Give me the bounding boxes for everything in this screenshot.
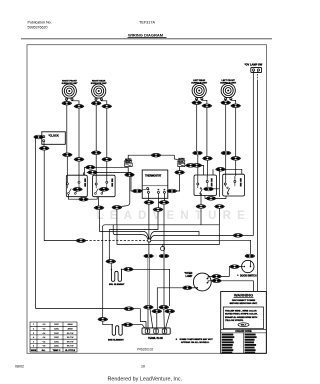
wire junction right to lamp switch: [151, 235, 234, 239]
svg-text:LEFT FRONT: LEFT FRONT: [222, 80, 236, 82]
wire bake right down: [163, 258, 165, 306]
wire top link to comp2: [172, 155, 178, 159]
connector bus y167: [85, 166, 95, 170]
connector unit3 left: [192, 101, 202, 105]
svg-text:WIRING DIAGRAM: WIRING DIAGRAM: [128, 33, 164, 38]
wire chart cell text: [33, 323, 73, 348]
door switch terminal left: [244, 266, 246, 268]
switch1 contact blade: [69, 189, 78, 193]
svg-text:Publication No.: Publication No.: [28, 21, 52, 25]
wire comp1 bottom down: [127, 167, 129, 173]
thermostat terminals: [147, 191, 149, 193]
wire junction down: [148, 242, 150, 254]
svg-text:SOME COMPONENTS MAY NOT: SOME COMPONENTS MAY NOT: [180, 338, 214, 341]
wire loop tee to junction arm: [113, 225, 148, 239]
connector block feed right: [159, 305, 169, 309]
svg-text:TEMP C: TEMP C: [53, 350, 61, 352]
wire dashed broil feed: [86, 240, 147, 242]
switch4 terminal stems: [225, 183, 235, 187]
terminal block lug 1: [145, 329, 150, 333]
wire bake right: [122, 324, 123, 326]
switch3 blade drop: [200, 195, 202, 205]
svg-text:105C: 105C: [54, 337, 59, 339]
svg-text:105C: 105C: [54, 333, 59, 335]
connector thermostat left: [132, 189, 142, 193]
svg-text:LAMP: LAMP: [186, 275, 193, 278]
wire comp1 to loop diagonal: [122, 177, 130, 207]
connector loop tail: [98, 318, 108, 322]
switch2 vertical label: [111, 178, 113, 186]
wire thermostat t3 down: [163, 193, 165, 200]
svg-text:*OV LAMP SW: *OV LAMP SW: [245, 63, 263, 67]
wire broil return to block: [166, 313, 170, 328]
svg-text:*CLOCK: *CLOCK: [49, 134, 59, 138]
wire lamp-door link: [221, 267, 230, 277]
switch2 terminal b: [106, 181, 108, 183]
switch3 vertical label: [211, 178, 213, 186]
frame border: [27, 45, 266, 354]
wire lamp bottom to warning area: [221, 281, 253, 292]
door switch circle: [242, 260, 254, 272]
svg-text:105C: 105C: [54, 341, 59, 343]
wire unit4 left lead: [225, 99, 227, 101]
wire unit3 right jog: [202, 99, 207, 104]
wire lamp switch left down: [252, 71, 254, 236]
svg-text:10: 10: [141, 365, 145, 369]
switch3 internal connector: [203, 187, 213, 191]
connector lamp left: [182, 286, 192, 290]
connector broil return: [165, 309, 175, 313]
switch3 terminal stems: [198, 183, 207, 189]
warning inner tracer box: [223, 307, 263, 329]
wire unit2 left lead: [95, 99, 97, 101]
connector clock left: [33, 135, 43, 139]
wire switch2 drop to junction: [100, 210, 149, 239]
wire into block terminal 1: [148, 309, 153, 328]
wire unit1 right jog: [72, 99, 79, 104]
wire clock left to left bus: [35, 137, 42, 309]
bake element right terminal: [122, 324, 123, 325]
connector switch4 drop: [214, 205, 224, 209]
connector left bus: [124, 307, 134, 311]
connector bake right: [159, 254, 169, 258]
wire thermostat t2 down: [157, 193, 159, 207]
svg-text:GA.: GA.: [42, 349, 46, 352]
left bus line y167: [85, 167, 129, 175]
svg-text:4: 4: [33, 337, 35, 339]
surface unit right front label: [62, 80, 79, 85]
wire broil right terminal: [121, 269, 122, 270]
connector switch2 drop: [94, 206, 104, 210]
wire switch2 bottom drop: [98, 197, 100, 206]
wire comp2 to thermostat right: [168, 174, 180, 191]
wire clock bottom down to elbow: [44, 150, 76, 241]
wire t1 to junction: [148, 204, 150, 239]
svg-text:P#6350102: P#6350102: [137, 348, 154, 352]
wire door left stub: [239, 266, 243, 268]
terminal block body: [142, 328, 170, 334]
svg-text:WIRE: WIRE: [31, 350, 37, 352]
switch4 terminal a: [224, 183, 226, 185]
wire lamp right top: [208, 276, 212, 278]
connector unit2 right: [102, 105, 112, 109]
note text: [180, 338, 214, 344]
connector comp2 bottom: [174, 171, 184, 175]
oven lamp switch terminals: [253, 69, 255, 71]
connector unit2 left: [91, 101, 101, 105]
svg-text:TEF317A: TEF317A: [139, 21, 156, 25]
connector bake left: [143, 254, 153, 258]
svg-text:BEFORE SERVICING UNIT.: BEFORE SERVICING UNIT.: [230, 303, 258, 305]
door switch terminal right: [250, 266, 252, 268]
switch1 terminal stems: [67, 183, 79, 188]
wire chart header row: [31, 349, 76, 352]
right bus line y169: [213, 169, 242, 175]
connector thermostat right: [167, 189, 177, 193]
svg-text:~10: ~10: [42, 329, 46, 331]
wire unit4 left to switch4: [226, 155, 235, 183]
wire connector to corner up: [243, 234, 254, 236]
surface unit left rear coil: [192, 83, 206, 100]
switch box 3 (left rear inf sw): [194, 175, 217, 196]
connector unit2 right mid: [102, 158, 112, 162]
switch2 internal connector: [99, 188, 109, 192]
wire unit1 right down: [78, 108, 80, 157]
wire switch4 drop to loop: [219, 208, 221, 224]
thermal limiter comp1 label: [124, 158, 132, 163]
switch2 terminal a: [95, 183, 97, 185]
connector t1: [144, 201, 154, 205]
connector unit1 left mid: [62, 153, 72, 157]
terminal block lug 2: [154, 329, 159, 333]
switch1 terminal b: [78, 181, 80, 183]
header rule: [21, 38, 272, 40]
wire unit2 left to switch2: [95, 155, 97, 183]
switch1 vertical label: [84, 178, 86, 186]
wire into block terminal 2: [156, 313, 158, 328]
switch2 contact blade: [96, 189, 105, 193]
connector door left: [229, 265, 239, 269]
connector lamp right bottom: [211, 279, 221, 283]
connector broil right: [123, 268, 133, 272]
wire chart table grid: [30, 322, 77, 352]
switch2 bottom terminals: [95, 193, 97, 195]
header title underline: [128, 37, 167, 39]
wire switch1-switch2 bottom U link: [68, 194, 97, 199]
bake element left terminal: [112, 324, 113, 325]
wire lamp switch right down dashed then solid: [257, 71, 259, 80]
wire lamp left bottom: [192, 287, 197, 289]
wire unit4 left down: [225, 105, 227, 152]
clock terminal lower: [43, 140, 45, 142]
wire unit3 left down: [196, 105, 198, 152]
wire dashed continue to junction: [146, 239, 149, 241]
lamp receptacle balloon: [162, 245, 164, 247]
svg-text:SF-TW: SF-TW: [67, 333, 74, 335]
connector comp1 drop: [112, 206, 122, 210]
surface unit right rear coil: [92, 84, 106, 101]
wire loop ring: [103, 225, 220, 245]
wire unit2 right to switch2: [106, 161, 108, 181]
svg-text:YELLOW STRIPE.: YELLOW STRIPE.: [225, 320, 244, 322]
surface unit right rear label: [91, 79, 108, 85]
surface unit left front label: [220, 80, 237, 85]
switch box 1 (right front inf sw): [66, 175, 87, 197]
connector unit4 right: [231, 104, 241, 108]
connector top link: [151, 153, 161, 157]
wire clock lower terminal down: [43, 142, 45, 147]
wire lamp left to block: [157, 288, 182, 310]
switch3 link to box4: [204, 188, 219, 190]
connector unit3 left mid: [192, 151, 202, 155]
left bus line y172: [84, 172, 134, 191]
connector block feed left: [143, 305, 153, 309]
switch4 contact blade: [227, 188, 230, 193]
svg-text:GN-Y: GN-Y: [241, 325, 247, 327]
connector bus y169: [215, 168, 225, 172]
wire unit4 right down: [235, 108, 237, 157]
wire junction to door switch: [151, 240, 251, 254]
svg-text:~14: ~14: [42, 337, 46, 339]
connector lamp to door: [211, 275, 221, 279]
color code rows: [222, 334, 257, 354]
svg-text:LEFT REAR: LEFT REAR: [193, 79, 205, 82]
connector switch3 drop: [196, 205, 206, 209]
svg-text:TERML BLOK: TERML BLOK: [148, 338, 163, 340]
thermal fuse comp2 label: [177, 158, 185, 163]
left bus to block: long horizontal: [35, 307, 124, 309]
switch1 bottom terminals: [68, 193, 70, 195]
connector unit4 right mid: [231, 157, 241, 161]
oven lamp circle: [193, 273, 211, 291]
oven lamp terminal right bottom: [207, 282, 209, 284]
switch box 4 (left front inf sw): [223, 174, 245, 196]
svg-text:3: 3: [33, 333, 35, 335]
surface unit left rear label: [191, 79, 208, 85]
wire comp2 right bus: [185, 165, 204, 175]
switch box 2 (right rear inf sw): [93, 175, 116, 197]
wire unit2 right jog: [101, 99, 106, 104]
connector unit1 left: [62, 101, 72, 105]
wire comp1 top link: [128, 155, 171, 158]
thermostat internal line: [142, 185, 168, 187]
switch1 terminal a: [66, 183, 68, 185]
oven lamp label: [185, 272, 193, 278]
connector broil: [106, 260, 116, 264]
svg-text:UL STYLE: UL STYLE: [65, 350, 76, 352]
wire between boxes down: [218, 169, 220, 197]
oven lamp terminal right top: [207, 278, 209, 280]
svg-text:LEADVENTURE: LEADVENTURE: [97, 210, 251, 222]
connector bus y172: [87, 171, 97, 175]
svg-text:DOOR SWITCH: DOOR SWITCH: [240, 275, 257, 277]
wire switch3 drop to loop: [200, 208, 202, 224]
connector door switch top: [245, 254, 255, 258]
connector block middle feed: [152, 309, 162, 313]
connector t3: [159, 201, 169, 205]
svg-text:NOTED FIRST, STRIPE COLOR.: NOTED FIRST, STRIPE COLOR.: [225, 314, 258, 316]
svg-text:RIGHT FRONT: RIGHT FRONT: [62, 80, 77, 82]
door switch label: [237, 275, 238, 276]
thermostat terminal labels: [148, 189, 166, 190]
connector unit4 left mid: [221, 151, 231, 155]
wire unit4 right jog: [231, 99, 236, 104]
svg-text:6: 6: [33, 346, 35, 348]
connector block left low: [123, 323, 133, 327]
broil element coil: [111, 270, 121, 281]
connector U link right: [206, 197, 216, 201]
svg-text:~16: ~16: [42, 346, 46, 348]
oven lamp terminal left bottom: [196, 287, 198, 289]
svg-text:WARNING: WARNING: [234, 293, 253, 298]
svg-text:SF-TW: SF-TW: [67, 341, 74, 343]
oven lamp switch box: [251, 67, 262, 72]
surface unit left front coil: [221, 83, 235, 100]
svg-text:SF-TW: SF-TW: [67, 346, 74, 348]
svg-text:DISCONNECT POWER: DISCONNECT POWER: [232, 300, 256, 302]
wire loop tail down: [102, 227, 104, 318]
wire bake left down pair: [148, 258, 150, 306]
svg-text:BKE ELEMENT: BKE ELEMENT: [108, 340, 124, 342]
switch3 terminal b: [206, 181, 208, 183]
wire unit1 left to switch1: [66, 157, 68, 183]
thermostat box: [142, 170, 168, 198]
svg-text:08/02: 08/02: [15, 365, 24, 369]
connector unit3 right: [202, 104, 212, 108]
svg-text:2: 2: [33, 329, 35, 331]
thermostat left terminal: [147, 188, 149, 190]
connector t2b: [153, 208, 163, 212]
svg-text:~10: ~10: [42, 324, 46, 326]
wire junction out to right corner: [150, 232, 199, 239]
switch3 terminal a: [197, 183, 199, 185]
bake element coil: [112, 325, 122, 336]
warning box outer: [221, 292, 267, 354]
connector unit2 left mid: [91, 151, 101, 155]
wire unit3 right down: [206, 108, 208, 157]
thermal fuse comp2 body: [178, 163, 185, 166]
svg-text:SF-TW: SF-TW: [67, 337, 74, 339]
wire into block terminal 3: [163, 309, 166, 328]
connector U link: [78, 197, 88, 201]
wire thermostat t1 down: [147, 193, 149, 200]
wire unit3 right to switch3: [206, 160, 208, 176]
svg-text:5: 5: [33, 341, 35, 343]
svg-text:~14: ~14: [42, 333, 46, 335]
wire unit1 right to switch1: [78, 161, 80, 181]
svg-text:RIGHT REAR: RIGHT REAR: [92, 79, 106, 82]
wire t3 down to bake connector: [163, 204, 165, 254]
connector lamp switch return: [233, 234, 243, 238]
connector unit1 right mid: [74, 158, 84, 162]
wire unit1 left down: [66, 105, 68, 153]
junction circle: [148, 239, 151, 242]
connector comp2 right a: [186, 164, 196, 168]
switch4 terminal b: [234, 181, 236, 183]
wire broil right to corner: [133, 269, 170, 306]
wire loop left feed: [116, 209, 118, 224]
wire comp2 bottom down: [179, 167, 181, 171]
surface unit right front coil: [62, 84, 76, 101]
connector comp2 right b: [192, 164, 202, 168]
connector unit4 left: [221, 101, 231, 105]
connector unit3 right mid: [202, 157, 212, 161]
svg-text:105C: 105C: [54, 346, 59, 348]
switch1 internal connector: [72, 188, 82, 192]
connector broil feed: [76, 239, 86, 243]
wire unit3 left lead: [196, 99, 198, 101]
wire left bus Z into block: [134, 309, 146, 329]
wire to block left low: [133, 325, 145, 329]
switch2 terminal stems: [96, 183, 107, 188]
connector unit1 right: [74, 105, 84, 109]
svg-text:AWM: AWM: [67, 328, 72, 331]
thermal limiter comp1 body: [125, 163, 133, 166]
svg-text:~14: ~14: [42, 341, 46, 343]
wire unit3 left to switch3: [198, 155, 207, 183]
wire unit2 right down: [106, 108, 108, 157]
svg-text:105C: 105C: [54, 324, 59, 326]
wire unit4 right to switch4: [235, 160, 237, 176]
connector clock bottom: [39, 147, 49, 151]
wire t2 to broil element: [109, 211, 158, 259]
svg-text:APPEAR ON ALL MODELS.: APPEAR ON ALL MODELS.: [181, 341, 210, 344]
svg-text:105C: 105C: [54, 329, 59, 331]
tracer example capsule: [238, 323, 249, 327]
svg-text:TRACER WIRE - WIRE COLOR: TRACER WIRE - WIRE COLOR: [225, 309, 257, 312]
switch4 vertical label: [240, 178, 242, 186]
svg-text:BRL ELEMENT: BRL ELEMENT: [109, 284, 125, 286]
warning subtitle: [230, 300, 258, 305]
clock box: [42, 132, 66, 145]
wire unit1 left lead: [66, 99, 68, 101]
wire loop tail to bake element: [103, 321, 112, 325]
svg-text:Rendered by LeadVenture, Inc.: Rendered by LeadVenture, Inc.: [108, 377, 183, 383]
clock terminal upper: [43, 136, 45, 138]
wire broil connector to element: [110, 263, 112, 270]
svg-text:EXAMPLE: GREEN WIRE WITH: EXAMPLE: GREEN WIRE WITH: [225, 316, 258, 319]
wire unit2 left down: [95, 105, 97, 151]
note asterisk: [176, 338, 178, 340]
svg-text:AWM: AWM: [67, 323, 72, 326]
svg-text:THERMOSTAT: THERMOSTAT: [145, 175, 162, 178]
svg-text:5995376620: 5995376620: [28, 26, 48, 30]
door switch stem: [250, 260, 252, 266]
terminal block lug 3: [162, 329, 167, 333]
connector comp1 bottom: [124, 173, 134, 177]
switch3-switch4 bottom U link: [205, 196, 226, 199]
svg-text:1: 1: [33, 324, 35, 326]
wire lamp right bottom: [208, 281, 212, 283]
switch3 contact blade: [200, 189, 203, 194]
